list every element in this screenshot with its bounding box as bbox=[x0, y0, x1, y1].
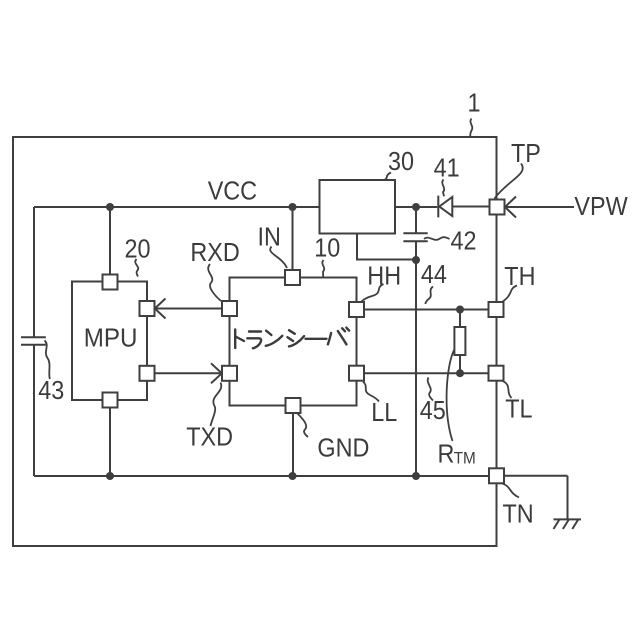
svg-text:42: 42 bbox=[451, 228, 477, 256]
svg-text:TP: TP bbox=[511, 140, 541, 168]
svg-text:41: 41 bbox=[434, 154, 460, 182]
svg-text:43: 43 bbox=[38, 377, 64, 405]
svg-text:20: 20 bbox=[125, 236, 151, 264]
svg-text:RXD: RXD bbox=[190, 239, 239, 267]
svg-text:LL: LL bbox=[371, 399, 397, 427]
svg-text:TM: TM bbox=[454, 449, 476, 468]
svg-text:45: 45 bbox=[420, 397, 446, 425]
svg-text:TN: TN bbox=[503, 500, 534, 528]
svg-text:1: 1 bbox=[468, 90, 481, 118]
svg-text:VPW: VPW bbox=[574, 193, 628, 221]
svg-text:30: 30 bbox=[388, 148, 414, 176]
svg-text:TH: TH bbox=[504, 263, 535, 291]
svg-text:VCC: VCC bbox=[208, 177, 257, 205]
svg-text:MPU: MPU bbox=[84, 324, 138, 353]
svg-text:IN: IN bbox=[258, 223, 281, 251]
svg-text:HH: HH bbox=[367, 262, 401, 290]
svg-text:GND: GND bbox=[317, 434, 369, 462]
svg-text:TXD: TXD bbox=[186, 424, 233, 452]
svg-text:44: 44 bbox=[421, 261, 447, 289]
svg-text:10: 10 bbox=[314, 234, 340, 262]
svg-text:TL: TL bbox=[505, 395, 532, 423]
svg-text:R: R bbox=[438, 440, 455, 468]
